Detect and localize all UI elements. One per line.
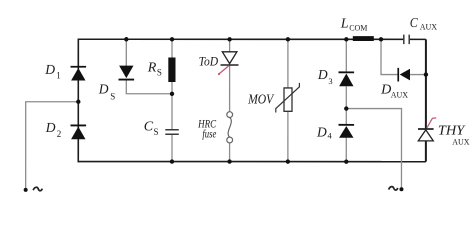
svg-text:fuse: fuse	[202, 129, 216, 141]
svg-text:S: S	[153, 127, 158, 137]
svg-text:4: 4	[327, 130, 332, 140]
svg-text:COM: COM	[349, 23, 367, 32]
svg-text:2: 2	[57, 129, 62, 139]
svg-text:1: 1	[56, 70, 61, 80]
svg-text:D: D	[317, 68, 328, 83]
svg-text:ToD: ToD	[199, 54, 219, 68]
svg-text:3: 3	[328, 76, 332, 86]
svg-text:D: D	[380, 83, 391, 98]
svg-text:C: C	[144, 119, 154, 134]
svg-text:C: C	[410, 16, 419, 31]
svg-text:MOV: MOV	[247, 93, 274, 108]
svg-text:D: D	[98, 82, 109, 97]
svg-text:S: S	[157, 68, 162, 78]
svg-text:R: R	[147, 60, 157, 75]
svg-text:D: D	[45, 121, 56, 136]
svg-text:THY: THY	[438, 123, 467, 138]
svg-text:AUX: AUX	[391, 91, 409, 100]
svg-text:L: L	[340, 16, 349, 31]
svg-text:D: D	[44, 63, 55, 78]
svg-text:AUX: AUX	[420, 23, 438, 32]
svg-text:S: S	[110, 91, 115, 101]
svg-text:AUX: AUX	[452, 137, 470, 146]
svg-text:D: D	[316, 125, 327, 140]
